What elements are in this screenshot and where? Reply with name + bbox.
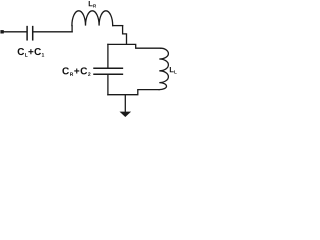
label CL+C1: [18, 48, 45, 57]
top bus: [108, 44, 161, 48]
input terminal: [0, 30, 3, 33]
capacitor CL+C1 right plate: [32, 27, 34, 40]
wire C1 to LR: [33, 31, 72, 33]
ground stem: [124, 95, 126, 112]
ground symbol: [120, 112, 132, 117]
wire down jog: [123, 26, 127, 45]
wire input to C1: [4, 31, 27, 33]
label LL: [170, 67, 177, 74]
wire LL bottom to step: [108, 90, 159, 95]
wire CR bottom to bus: [107, 75, 109, 95]
capacitor CL+C1 left plate: [26, 27, 28, 40]
capacitor CR+C2 top plate: [94, 67, 122, 69]
wire LR to corner: [113, 25, 123, 27]
inductor LL: [159, 48, 168, 89]
wire vertical up to LR: [71, 26, 73, 32]
inductor LR: [72, 11, 113, 26]
label LR: [89, 1, 96, 8]
capacitor CR+C2 bottom plate: [94, 73, 122, 75]
wire down to CR plate: [107, 44, 109, 67]
label CR+C2: [62, 67, 90, 76]
